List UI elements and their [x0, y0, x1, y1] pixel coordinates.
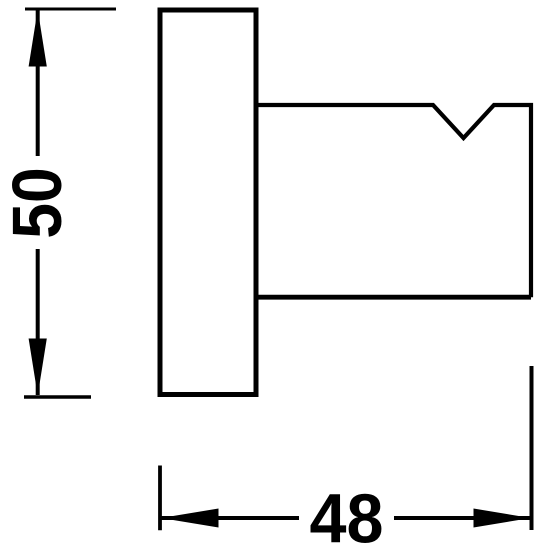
wall plate rectangle — [160, 10, 256, 395]
right extension line (48 dim) — [530, 366, 534, 530]
bottom extension tick (plate bottom) — [24, 395, 91, 399]
vertical dimension line upper segment — [36, 10, 40, 156]
hook arm bottom edge — [256, 295, 531, 300]
svg-text:50: 50 — [0, 167, 76, 239]
arrowhead up — [29, 10, 47, 67]
arrowhead left — [161, 509, 219, 528]
vertical dimension line lower segment — [36, 249, 40, 395]
arrowhead down — [29, 339, 47, 396]
svg-text:48: 48 — [310, 480, 384, 548]
horizontal dimension line right segment — [394, 516, 530, 520]
left extension line (48 dim) — [158, 466, 162, 531]
horizontal dimension line left segment — [161, 516, 299, 520]
hook arm outline with V-notch — [258, 105, 531, 297]
top extension tick (plate top) — [25, 8, 116, 11]
arrowhead right — [474, 509, 531, 528]
